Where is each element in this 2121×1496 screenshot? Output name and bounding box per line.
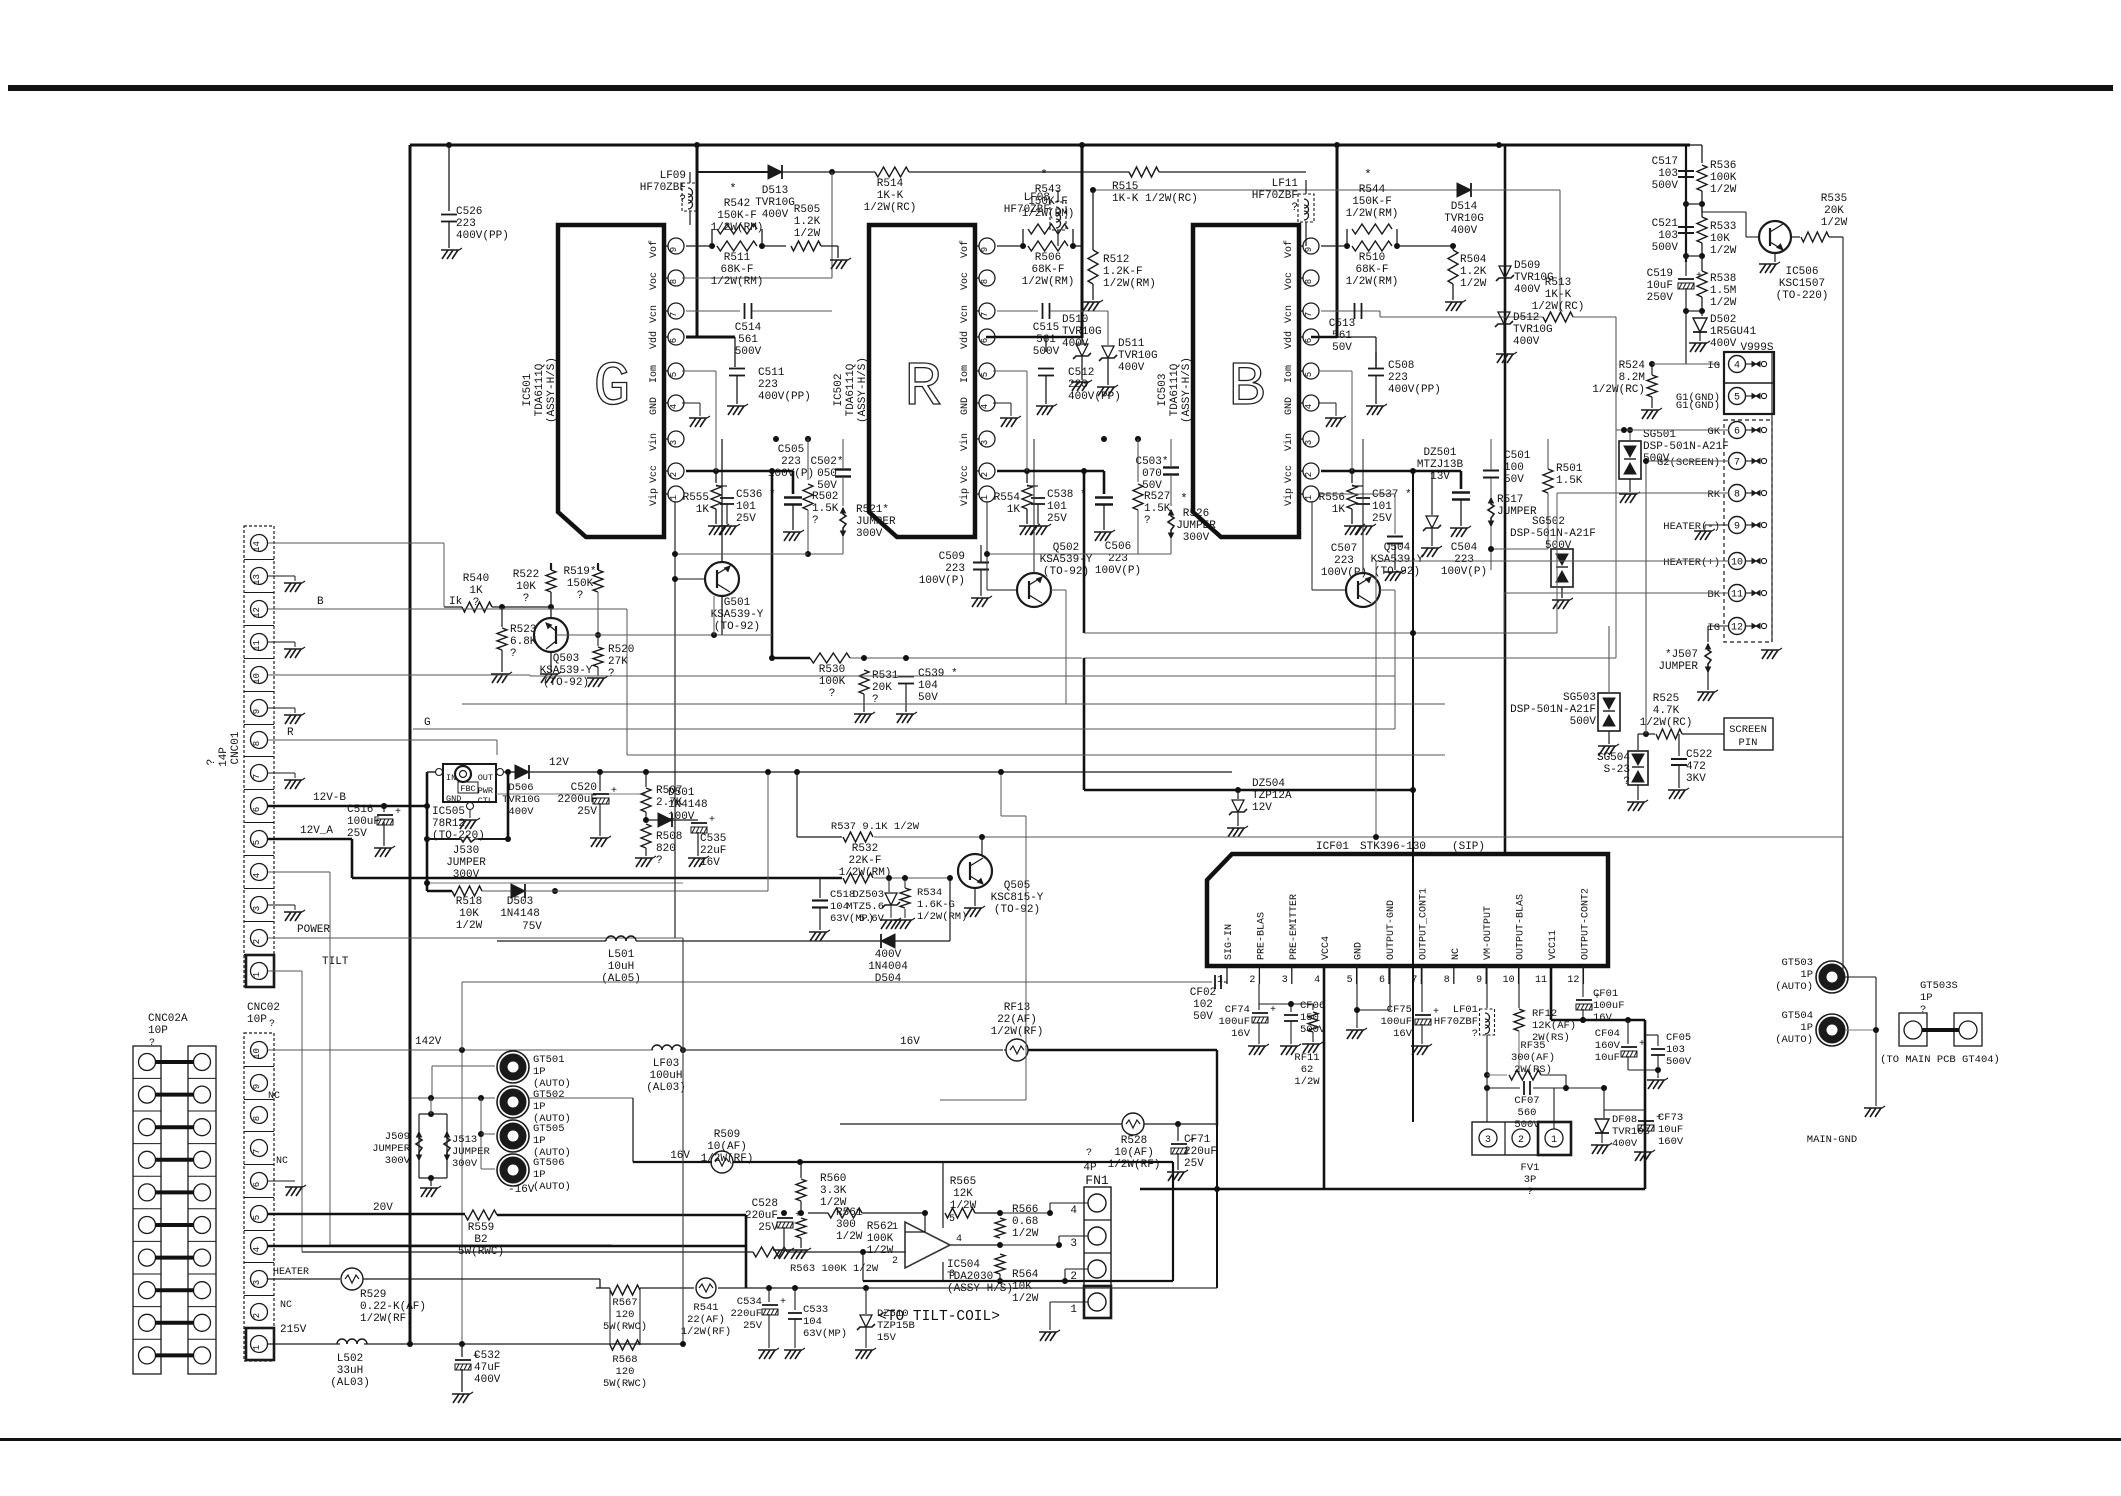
svg-text:1: 1 — [252, 972, 262, 977]
svg-text:12: 12 — [252, 607, 262, 618]
spark gap SG503 — [1510, 626, 1620, 755]
svg-text:2: 2 — [252, 1313, 262, 1318]
svg-text:RF35: RF35 — [1520, 1040, 1545, 1052]
CNC02 pin 8 — [244, 1107, 274, 1132]
wire VCC11 drop — [1504, 145, 1507, 852]
svg-text:G: G — [593, 352, 630, 423]
svg-text:SG504: SG504 — [1597, 752, 1630, 764]
resistor R514 — [832, 167, 1082, 214]
wire heater- ground — [1694, 525, 1729, 540]
svg-text:25V: 25V — [743, 1320, 763, 1332]
wire heater R541 segment — [596, 1285, 869, 1291]
svg-text:Voc: Voc — [960, 272, 971, 290]
svg-text:R: R — [904, 352, 941, 423]
resistor R532 — [820, 843, 953, 883]
svg-text:Voc: Voc — [649, 272, 660, 290]
svg-text:C535: C535 — [700, 833, 726, 845]
jack GT503 — [1775, 957, 1876, 993]
resistor R564 — [995, 1254, 1039, 1305]
svg-text:4: 4 — [1304, 404, 1314, 409]
svg-text:220uF: 220uF — [1184, 1146, 1217, 1158]
net label Ik — [449, 596, 463, 608]
wire heater bottom — [866, 1186, 1220, 1288]
svg-text:1: 1 — [1070, 1304, 1077, 1316]
svg-text:3.3K: 3.3K — [820, 1185, 847, 1197]
svg-text:62: 62 — [1301, 1064, 1314, 1076]
pin 3 (Vin) of IC501 — [648, 431, 684, 451]
pin 5 (Iom) of IC502 — [960, 363, 995, 383]
wire RK row — [1084, 632, 1557, 634]
CRT socket pin 4 (IG) — [1707, 356, 1766, 373]
svg-text:ICF01: ICF01 — [1316, 841, 1349, 853]
svg-text:(TO MAIN PCB GT404): (TO MAIN PCB GT404) — [1880, 1054, 2000, 1066]
wire G Vip stub — [672, 501, 808, 938]
svg-text:22(AF): 22(AF) — [687, 1314, 725, 1326]
svg-text:1K-K: 1K-K — [877, 190, 904, 202]
svg-text:GT502: GT502 — [533, 1089, 565, 1101]
svg-text:9: 9 — [252, 709, 262, 714]
svg-text:63V(MP): 63V(MP) — [830, 913, 874, 925]
svg-text:(AUTO): (AUTO) — [1775, 981, 1813, 993]
svg-text:GK: GK — [1707, 426, 1720, 438]
svg-text:1/2W: 1/2W — [1710, 297, 1737, 309]
svg-text:DZ504: DZ504 — [1252, 778, 1285, 790]
capacitor C515 (R ch) — [997, 303, 1108, 358]
ICF01 pin 7 (OUTPUT_CONT1) — [1411, 888, 1429, 986]
fusible resistor R528 — [840, 1113, 1217, 1288]
resistor R560 — [796, 1162, 847, 1213]
svg-text:13V: 13V — [1430, 471, 1450, 483]
svg-text:560: 560 — [1518, 1107, 1537, 1119]
CNC01 pin 8 — [244, 732, 274, 757]
wire 215V junction — [459, 1341, 465, 1347]
svg-text:5: 5 — [980, 372, 990, 377]
FN1 pin 3 — [1070, 1227, 1106, 1250]
svg-text:2: 2 — [252, 939, 262, 944]
svg-text:C513: C513 — [1329, 318, 1355, 330]
jumper R517 — [1488, 481, 1537, 570]
svg-text:PWR: PWR — [478, 786, 493, 796]
capacitor C518 — [809, 878, 874, 941]
svg-text:10: 10 — [252, 673, 262, 684]
svg-text:100uH: 100uH — [649, 1070, 682, 1082]
svg-text:11: 11 — [1731, 590, 1743, 601]
svg-text:3: 3 — [252, 906, 262, 911]
svg-text:070: 070 — [1142, 468, 1162, 480]
capacitor CF73 — [1604, 1110, 1684, 1161]
svg-text:PRE-BLAS: PRE-BLAS — [1256, 912, 1267, 960]
CNC02 pin 1 — [246, 1328, 274, 1360]
CNC01 pin 7 ground — [268, 773, 305, 789]
svg-text:C514: C514 — [735, 322, 762, 334]
diode D506 — [502, 757, 1232, 818]
svg-text:1/2W: 1/2W — [950, 1200, 977, 1212]
resistor R504 (B ch) — [1420, 243, 1487, 311]
pin 9 (Vof) of IC502 — [959, 238, 995, 258]
svg-text:10: 10 — [252, 1048, 262, 1059]
resistor R555 — [683, 468, 729, 535]
svg-text:4: 4 — [956, 1234, 962, 1245]
capacitor CF04 — [1595, 1020, 1645, 1070]
resistor R536 — [1690, 145, 1737, 204]
wire CNC02 pin4 — [268, 1215, 746, 1288]
wire IG12 line — [1708, 625, 1729, 627]
svg-text:1/2W: 1/2W — [1710, 245, 1737, 257]
ICF01 pin 4 (VCC4) — [1314, 936, 1332, 986]
capacitor C502 (G ch) — [773, 436, 851, 506]
svg-text:1K: 1K — [469, 585, 483, 597]
resistor R542 (G ch) — [709, 182, 765, 249]
svg-text:GND: GND — [1354, 942, 1365, 960]
svg-text:5: 5 — [252, 840, 262, 845]
ICF01 pin 3 (PRE-EMITTER) — [1282, 894, 1300, 986]
svg-text:R515: R515 — [1112, 181, 1138, 193]
wire OUTPUT-GND — [1354, 966, 1390, 1013]
svg-text:4: 4 — [1070, 1205, 1077, 1217]
CRT socket right bus — [1761, 352, 1782, 659]
svg-text:Vcn: Vcn — [1284, 305, 1295, 323]
svg-text:CNC02: CNC02 — [247, 1002, 280, 1014]
svg-text:68K-F: 68K-F — [1031, 264, 1064, 276]
svg-text:R538: R538 — [1710, 273, 1736, 285]
svg-text:C503*: C503* — [1135, 456, 1168, 468]
svg-text:5: 5 — [669, 372, 679, 377]
svg-text:7: 7 — [980, 312, 990, 317]
wire VCC4 thick — [1323, 966, 1326, 1189]
svg-text:1/2W: 1/2W — [1460, 278, 1487, 290]
svg-text:C505: C505 — [778, 444, 804, 456]
svg-text:C504: C504 — [1451, 542, 1478, 554]
svg-text:1/2W(RF): 1/2W(RF) — [1108, 1159, 1161, 1171]
svg-text:GT503S: GT503S — [1920, 980, 1958, 992]
svg-text:100uF: 100uF — [347, 816, 380, 828]
svg-text:2: 2 — [1249, 975, 1255, 986]
svg-text:6: 6 — [980, 338, 990, 343]
svg-text:KSA539-Y: KSA539-Y — [711, 609, 764, 621]
svg-text:400V: 400V — [1451, 225, 1478, 237]
svg-text:223: 223 — [1068, 379, 1088, 391]
svg-text:050: 050 — [817, 468, 837, 480]
svg-text:223: 223 — [945, 563, 965, 575]
svg-text:(ASSY-H/S): (ASSY-H/S) — [1181, 357, 1193, 423]
svg-text:22(AF): 22(AF) — [997, 1014, 1037, 1026]
CNC02 pin6 ground — [268, 1181, 306, 1196]
svg-text:PIN: PIN — [1739, 737, 1758, 749]
svg-text:R519*: R519* — [563, 566, 596, 578]
svg-text:+: + — [1270, 1005, 1276, 1016]
svg-text:JUMPER: JUMPER — [452, 1146, 491, 1158]
svg-text:25V: 25V — [1047, 513, 1067, 525]
svg-text:8: 8 — [1734, 490, 1740, 501]
connector CNC02 outline — [244, 1033, 274, 1361]
wire IG pin4 line — [1652, 363, 1720, 365]
svg-text:100uF: 100uF — [1218, 1016, 1250, 1028]
svg-text:(AL03): (AL03) — [330, 1377, 370, 1389]
CRT socket solid box pins 4-5 — [1724, 352, 1774, 414]
capacitor C511 (G ch) — [727, 337, 811, 415]
capacitor C537 — [1352, 486, 1412, 535]
svg-text:1P: 1P — [533, 1066, 546, 1078]
svg-text:BK: BK — [1707, 589, 1720, 601]
G1(GND) second label — [1676, 400, 1720, 412]
pin 8 (Voc) of IC503 — [1284, 270, 1319, 290]
svg-text:OUTPUT-BLAS: OUTPUT-BLAS — [1516, 894, 1527, 960]
CNC02A pin pair 4 — [133, 1249, 216, 1274]
svg-text:15V: 15V — [877, 1332, 897, 1344]
svg-text:1/2W(RF): 1/2W(RF) — [991, 1026, 1044, 1038]
svg-text:Vcc: Vcc — [649, 465, 660, 483]
CNC01 pin 12 — [244, 601, 274, 626]
svg-text:100uF: 100uF — [1380, 1016, 1412, 1028]
wire op-amp loop — [797, 1159, 1173, 1284]
svg-text:TVR10G: TVR10G — [1444, 213, 1484, 225]
ICF01 pin 9 (VM-OUTPUT) — [1476, 906, 1494, 986]
svg-text:RK: RK — [1707, 489, 1720, 501]
svg-text:D501: D501 — [668, 787, 695, 799]
svg-text:OUTPUT-GND: OUTPUT-GND — [1386, 900, 1397, 960]
pin 6 (Vdd) of IC502 — [959, 329, 995, 349]
wire CNC02 pin10 142V — [268, 1047, 686, 1344]
CNC02A pin pair 10 — [133, 1054, 216, 1079]
ICF01 pin 11 (VCC11) — [1535, 930, 1559, 986]
svg-text:8.2M: 8.2M — [1619, 372, 1645, 384]
connector CNC02A outline — [133, 1046, 161, 1374]
svg-text:50V: 50V — [1332, 342, 1352, 354]
svg-text:Vcn: Vcn — [960, 305, 971, 323]
resistor R534 — [894, 878, 967, 929]
svg-text:100V(P): 100V(P) — [1095, 565, 1141, 577]
svg-text:561: 561 — [738, 334, 758, 346]
op-amp IC504 TDA2030 — [892, 1162, 1013, 1295]
svg-text:*: * — [729, 182, 736, 196]
zener D509 — [1496, 260, 1554, 308]
svg-text:300V: 300V — [1183, 532, 1210, 544]
wire R512 net — [1090, 187, 1464, 193]
wire heater+ line — [1373, 561, 1729, 840]
CNC01 pin 6 — [244, 798, 274, 823]
svg-text:300V: 300V — [452, 1158, 478, 1170]
bus wire y704 — [462, 703, 1445, 705]
svg-text:223: 223 — [758, 379, 778, 391]
svg-text:(ASSY-H/S): (ASSY-H/S) — [947, 1283, 1013, 1295]
resistor R515 — [1082, 167, 1306, 205]
svg-text:HEATER(+): HEATER(+) — [1663, 557, 1720, 569]
spark gap SG504 — [1597, 734, 1648, 811]
svg-text:50V: 50V — [1193, 1011, 1213, 1023]
wire CNC01 pin1 TILT — [268, 971, 302, 1252]
zener DZ510 — [855, 1288, 915, 1359]
wire R Iom stub — [993, 371, 1027, 471]
svg-text:561: 561 — [1332, 330, 1352, 342]
CNC01 pin 4 — [244, 864, 274, 889]
svg-text:Vin: Vin — [1283, 433, 1295, 451]
svg-text:TDA6111Q: TDA6111Q — [1169, 363, 1181, 416]
pin 9 (Vof) of IC503 — [1283, 238, 1319, 258]
svg-text:4: 4 — [252, 1247, 262, 1252]
svg-text:LF11: LF11 — [1272, 178, 1299, 190]
svg-text:*: * — [1040, 168, 1047, 182]
capacitor C509 (G out) — [919, 545, 992, 607]
svg-text:12V: 12V — [549, 757, 569, 769]
CNC02 label — [247, 1002, 280, 1030]
transistor Q502 — [1017, 439, 1093, 704]
svg-text:2: 2 — [1304, 472, 1314, 477]
svg-text:7: 7 — [252, 774, 262, 779]
capacitor C536 — [716, 486, 776, 535]
wire screen drop — [1645, 461, 1647, 734]
net label NC pin7 — [276, 1156, 288, 1167]
connector FN1 — [1084, 1187, 1111, 1318]
svg-text:1P: 1P — [1800, 1022, 1813, 1034]
resistor R540 — [444, 573, 554, 612]
jumper J509 — [372, 1114, 447, 1178]
connector FV1 — [1472, 1122, 1571, 1155]
svg-text:400V: 400V — [1710, 338, 1737, 350]
svg-text:1.2K: 1.2K — [1460, 266, 1487, 278]
svg-text:D503: D503 — [507, 896, 533, 908]
resistor R525 — [1640, 693, 1724, 739]
svg-text:GND: GND — [649, 397, 660, 415]
svg-text:400V: 400V — [762, 209, 789, 221]
CNC02A pin pair 9 — [133, 1086, 216, 1111]
svg-text:223: 223 — [781, 456, 801, 468]
svg-text:561: 561 — [1036, 334, 1056, 346]
svg-text:4.7K: 4.7K — [1653, 705, 1680, 717]
svg-text:GND: GND — [960, 397, 971, 415]
svg-text:R533: R533 — [1710, 221, 1736, 233]
svg-text:300V: 300V — [385, 1155, 411, 1167]
resistor R506 (R ch) — [997, 241, 1082, 288]
net label 142V — [415, 1036, 442, 1048]
svg-text:R566: R566 — [1012, 1204, 1038, 1216]
svg-text:20K: 20K — [872, 682, 892, 694]
svg-text:FN1: FN1 — [1085, 1173, 1109, 1188]
net label NC pin9 — [268, 1091, 280, 1102]
FV1 label — [1521, 1162, 1540, 1198]
svg-text:22uF: 22uF — [700, 845, 726, 857]
CNC02A pin pair 5 — [133, 1217, 216, 1242]
wire B Vcc thick — [1321, 470, 1461, 473]
svg-text:CF07: CF07 — [1514, 1095, 1539, 1107]
svg-text:R508: R508 — [656, 831, 682, 843]
svg-text:3: 3 — [1070, 1238, 1077, 1250]
svg-text:100: 100 — [1504, 462, 1524, 474]
svg-text:50V: 50V — [1504, 474, 1524, 486]
svg-text:1P: 1P — [533, 1101, 546, 1113]
bus wire y755 — [627, 754, 1445, 756]
svg-text:12K(AF): 12K(AF) — [1532, 1020, 1576, 1032]
svg-text:9: 9 — [669, 247, 679, 252]
svg-text:Vip: Vip — [648, 488, 660, 506]
svg-text:400V: 400V — [474, 1374, 501, 1386]
svg-text:5: 5 — [1304, 372, 1314, 377]
resistor R538 — [1697, 256, 1737, 311]
resistor R530 — [810, 653, 850, 700]
capacitor CF01 — [1576, 966, 1625, 1024]
wire CNC01 pin14 — [268, 543, 444, 607]
svg-text:CF74: CF74 — [1225, 1004, 1250, 1016]
svg-text:6: 6 — [669, 338, 679, 343]
svg-text:C511: C511 — [758, 367, 785, 379]
svg-text:33uH: 33uH — [337, 1365, 363, 1377]
svg-text:25V: 25V — [1184, 1158, 1204, 1170]
svg-text:Iom: Iom — [960, 365, 971, 383]
svg-text:Vdd: Vdd — [648, 331, 660, 349]
CNC01 pin 9 — [244, 700, 274, 725]
diode DF08 — [1591, 1088, 1650, 1154]
svg-text:400V(PP): 400V(PP) — [456, 230, 509, 242]
svg-text:1/2W(RC): 1/2W(RC) — [1532, 301, 1585, 313]
svg-text:1/2W: 1/2W — [1710, 184, 1737, 196]
svg-text:63V(MP): 63V(MP) — [803, 1328, 847, 1340]
spark gap SG502 — [1510, 516, 1596, 609]
line filter LF03 — [646, 1045, 1003, 1094]
svg-text:C532: C532 — [474, 1350, 500, 1362]
capacitor CF05 — [1628, 1032, 1692, 1089]
svg-text:10uF: 10uF — [1595, 1052, 1620, 1064]
svg-text:G1(GND): G1(GND) — [1676, 400, 1720, 412]
svg-text:C539 *: C539 * — [918, 668, 958, 680]
svg-text:CF04: CF04 — [1595, 1028, 1620, 1040]
svg-text:HF70ZBF: HF70ZBF — [1434, 1016, 1478, 1028]
svg-text:0.22-K(AF): 0.22-K(AF) — [360, 1301, 426, 1313]
wire CNC01 pin8 R — [268, 740, 497, 745]
svg-text:10K: 10K — [1710, 233, 1730, 245]
svg-text:DSP-501N-A21F: DSP-501N-A21F — [1510, 704, 1596, 716]
CRT socket pin 10 (HEATER(+)) — [1663, 553, 1766, 570]
svg-text:7: 7 — [669, 312, 679, 317]
svg-text:1/2W(RM): 1/2W(RM) — [839, 867, 892, 879]
line filter LF09 — [640, 170, 698, 225]
svg-text:IG: IG — [1707, 360, 1720, 372]
svg-text:(TO-92): (TO-92) — [1043, 566, 1089, 578]
svg-text:160V: 160V — [1595, 1040, 1621, 1052]
svg-text:1/2W: 1/2W — [794, 228, 821, 240]
svg-text:*: * — [1180, 492, 1187, 506]
svg-text:Vdd: Vdd — [1283, 331, 1295, 349]
svg-text:?: ? — [523, 593, 530, 605]
svg-text:6: 6 — [1379, 975, 1385, 986]
svg-text:Q503: Q503 — [553, 653, 579, 665]
svg-text:5W(RWC): 5W(RWC) — [603, 1378, 647, 1390]
op-amp IC IC502 TDA6111Q (R) — [833, 225, 975, 537]
svg-text:D513: D513 — [762, 185, 788, 197]
capacitor C522 — [1668, 734, 1712, 799]
svg-text:NC: NC — [276, 1156, 288, 1167]
capacitor C521 — [1652, 218, 1694, 254]
svg-text:9: 9 — [980, 247, 990, 252]
svg-text:1: 1 — [252, 1345, 262, 1350]
CNC02 pin 7 — [244, 1140, 274, 1165]
svg-text:9: 9 — [252, 1084, 262, 1089]
svg-text:+: + — [395, 807, 401, 818]
pin 1 (Vip) of IC502 — [959, 486, 995, 506]
resistor R501 — [1491, 439, 1583, 549]
svg-text:10: 10 — [1503, 975, 1515, 986]
pin 8 (Voc) of IC502 — [960, 270, 995, 290]
svg-text:Vof: Vof — [648, 240, 660, 258]
pin 8 (Voc) of IC501 — [649, 270, 684, 290]
svg-text:12: 12 — [1731, 623, 1743, 634]
resistor R556 — [1319, 468, 1365, 535]
svg-text:Iom: Iom — [1284, 365, 1295, 383]
svg-text:1/2W(RM): 1/2W(RM) — [1022, 208, 1075, 220]
svg-text:C538 *: C538 * — [1047, 489, 1087, 501]
svg-text:1: 1 — [1551, 1135, 1557, 1146]
resistor RF12 — [1514, 966, 1576, 1075]
svg-text:1/2W(RC): 1/2W(RC) — [1592, 384, 1645, 396]
capacitor C504 (B ch) — [1441, 471, 1487, 578]
